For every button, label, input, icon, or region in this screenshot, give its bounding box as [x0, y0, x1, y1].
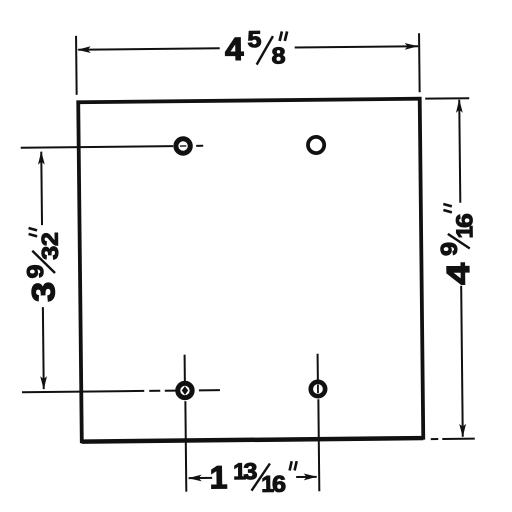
svg-text:3: 3	[37, 246, 63, 260]
right dimension text 4 9/16 inch (rotated)	[435, 204, 478, 285]
centerline dashes left of bottom-left hole	[149, 390, 176, 392]
centerline above bottom-left hole	[184, 355, 186, 381]
left dimension line top segment	[40, 152, 43, 225]
bottom dimension text 1 13/16 inch	[209, 458, 297, 498]
right dimension line bottom segment	[461, 286, 463, 437]
centerline below bottom-right hole / extension	[317, 399, 320, 491]
hole bottom-left center mark	[182, 386, 188, 395]
hole top-left	[176, 139, 191, 154]
plate outline	[78, 99, 423, 442]
right dimension line top segment	[459, 100, 460, 203]
top dimension line right segment	[295, 46, 418, 47]
svg-text:6: 6	[272, 471, 286, 497]
right dimension extension line bottom	[431, 438, 438, 440]
top dimension extension line left	[75, 36, 78, 95]
centerline right of bottom-left hole	[199, 389, 220, 391]
centerline through top-left hole	[21, 146, 173, 148]
left dimension arrow down	[40, 376, 47, 390]
centerline below bottom-left hole / extension	[184, 401, 187, 491]
svg-text:3: 3	[25, 282, 61, 302]
right dimension extension line top	[425, 97, 469, 99]
bottom dimension arrow right	[304, 473, 318, 480]
plate bottom edge emphasis	[82, 439, 423, 443]
top dimension arrow right	[405, 43, 419, 50]
left dimension line bottom segment	[42, 307, 45, 389]
right dimension arrow down	[459, 424, 466, 438]
svg-text:9: 9	[436, 242, 462, 256]
svg-text:3: 3	[243, 458, 257, 484]
top dimension extension line right	[418, 33, 421, 92]
svg-text:1: 1	[209, 459, 227, 495]
svg-text:6: 6	[451, 213, 477, 228]
svg-text:4: 4	[225, 31, 244, 67]
bottom dimension line left segment	[189, 477, 212, 479]
svg-text:2: 2	[37, 232, 63, 246]
svg-text:5: 5	[247, 26, 261, 52]
left dimension arrow up	[38, 151, 45, 165]
left dimension text 3 9/32 inch (rotated)	[22, 228, 64, 302]
centerline through bottom-left hole (horizontal)	[22, 391, 144, 392]
bottom dimension line right segment	[296, 476, 316, 478]
svg-text:8: 8	[271, 42, 285, 68]
hole top-right	[308, 137, 324, 153]
hole bottom-right inner line	[317, 385, 319, 393]
svg-text:4: 4	[440, 262, 476, 285]
right dimension arrow up	[456, 99, 463, 113]
top dimension arrow left	[77, 46, 91, 53]
centerline above bottom-right hole	[317, 354, 319, 380]
hole bottom-left	[178, 383, 193, 398]
top dimension line left segment	[78, 48, 219, 49]
hole bottom-right	[311, 382, 326, 397]
centerline dash right of top-left hole	[196, 145, 203, 147]
svg-text:9: 9	[22, 264, 48, 278]
top dimension text 4 5/8 inch	[225, 26, 288, 69]
bottom dimension arrow left	[188, 475, 202, 482]
hole top-left inner dash	[180, 145, 186, 147]
